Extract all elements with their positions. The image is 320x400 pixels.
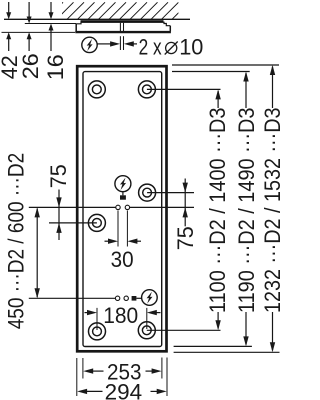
- housing outer rectangle: [77, 66, 166, 351]
- dim 253 arrows: [83, 368, 93, 373]
- mounting hole mid-right: [139, 184, 156, 201]
- mounting hole top-right: [138, 81, 155, 98]
- dim 450/600 line: [36, 209, 38, 298]
- svg-text:294: 294: [105, 379, 143, 400]
- dim 180 arrows: [85, 312, 89, 314]
- mounting plate gasket band (black): [81, 20, 164, 23]
- screw hole lines in plate: [119, 23, 121, 31]
- stem: [122, 192, 124, 196]
- top hole row line: [147, 88, 221, 90]
- svg-text:2 x: 2 x: [139, 35, 162, 60]
- plate left edge: [75, 24, 77, 32]
- bottom terminal square: [132, 296, 137, 301]
- svg-text:30: 30: [111, 247, 134, 272]
- mounting hole mid-left: [88, 214, 105, 231]
- housing inner rectangle: [83, 72, 162, 347]
- svg-text:75: 75: [173, 226, 198, 250]
- dim 75 left: [58, 190, 60, 241]
- dim 253 extension lines: [82, 358, 84, 379]
- mounting hole bottom-left: [89, 323, 106, 340]
- bottom cable entry holes: [115, 296, 119, 300]
- dim 42: [8, 2, 10, 18]
- dim line 1100/1400: [215, 89, 220, 99]
- svg-text:26: 26: [18, 53, 43, 79]
- lightning symbol (side view): [82, 37, 97, 52]
- svg-text:1100 ···D2 / 1400 ···D3: 1100 ···D2 / 1400 ···D3: [205, 108, 230, 314]
- bottom reference line outer: [174, 351, 280, 353]
- dim 26: [28, 2, 30, 22]
- dim 30 extension lines: [117, 211, 119, 247]
- svg-text:75: 75: [46, 164, 71, 188]
- dim 294 arrows: [77, 389, 87, 394]
- 26 extension line: [25, 23, 76, 25]
- ceiling hatching: [46, 2, 189, 19]
- terminal square: [120, 195, 126, 199]
- mounting plate outline: [76, 22, 170, 26]
- bottom lightning symbol: [142, 290, 158, 306]
- bottom extension line to left: [2, 31, 76, 33]
- mid-left hole line: [49, 222, 97, 224]
- mounting hole top-left: [88, 81, 105, 98]
- dim line 1232/1532: [270, 65, 275, 75]
- dim 30 arrows: [105, 240, 111, 242]
- top reference line outer (1232/1532): [172, 64, 279, 66]
- bottom cable entry line: [29, 297, 116, 299]
- dim 294 extension lines: [76, 358, 78, 396]
- mid-right hole line: [147, 192, 194, 194]
- svg-text:16: 16: [43, 54, 68, 80]
- plate bottom (thick): [75, 31, 171, 33]
- svg-text:1232 ···D2 / 1532 ···D3: 1232 ···D2 / 1532 ···D3: [260, 108, 282, 314]
- top reference line inner (1190/1490): [172, 71, 250, 73]
- dim 16: [50, 2, 52, 18]
- mounting hole bottom-right: [138, 322, 155, 339]
- dim 75 right: [184, 179, 186, 227]
- bottom reference line inner: [174, 345, 252, 347]
- ceiling line: [4, 18, 190, 20]
- dim line 1190/1490: [243, 72, 248, 82]
- dim 180 extension lines: [96, 308, 98, 330]
- top lightning symbol (mains entry): [115, 176, 131, 192]
- svg-text:450 ···D2 / 600 ···D2: 450 ···D2 / 600 ···D2: [3, 153, 28, 330]
- cable entry holes: [116, 205, 120, 209]
- plate right edge: [169, 26, 171, 32]
- svg-text:1190 ···D2 / 1490 ···D3: 1190 ···D2 / 1490 ···D3: [234, 108, 259, 314]
- svg-text:10: 10: [179, 35, 203, 60]
- bottom hole row line: [147, 329, 221, 331]
- callout arrows to 2x d10 hole: [97, 43, 113, 45]
- top cable entry line: [29, 206, 116, 208]
- svg-text:180: 180: [103, 303, 138, 328]
